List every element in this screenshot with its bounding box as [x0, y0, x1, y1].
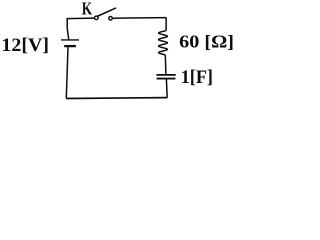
svg-text:K: K	[82, 0, 93, 19]
svg-text:60 [Ω]: 60 [Ω]	[179, 32, 234, 52]
wire right lower (capacitor to bottom corner)	[165, 79, 168, 98]
switch K	[95, 8, 116, 20]
wire right middle (resistor to capacitor)	[164, 55, 167, 74]
wire left upper (corner to battery)	[67, 18, 69, 40]
svg-text:12[V]: 12[V]	[1, 35, 49, 56]
svg-text:1[F]: 1[F]	[181, 67, 213, 88]
capacitor C1 1[F]	[156, 75, 175, 79]
wire right upper (corner to resistor)	[165, 18, 167, 31]
wire left lower (battery to bottom corner)	[66, 47, 68, 99]
wire top-left segment	[67, 17, 95, 20]
battery V1 12[V]	[61, 40, 79, 46]
resistor R1 60[ohm]	[159, 31, 168, 55]
wire top-right segment	[113, 17, 167, 20]
wire bottom	[66, 97, 167, 100]
